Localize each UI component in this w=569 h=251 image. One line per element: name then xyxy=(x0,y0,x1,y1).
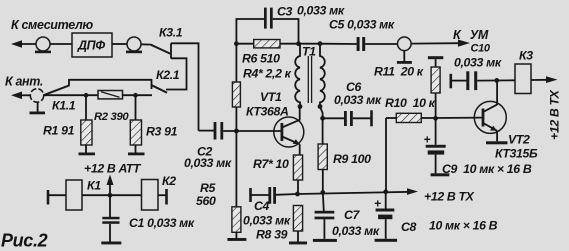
capacitor C2 xyxy=(214,122,224,140)
wire xyxy=(123,94,153,96)
svg-text:С3: С3 xyxy=(277,5,293,19)
node T1 pin1 xyxy=(296,41,301,46)
svg-text:К1: К1 xyxy=(87,179,101,193)
svg-text:С6: С6 xyxy=(346,80,362,94)
capacitor C5 xyxy=(320,37,397,51)
svg-text:С4: С4 xyxy=(254,199,270,213)
svg-text:0,033 мк: 0,033 мк xyxy=(184,156,232,170)
node R3 top xyxy=(133,93,138,98)
wire xyxy=(158,194,167,196)
relay coil K3 xyxy=(515,64,531,94)
arrow +12V ATT xyxy=(107,175,114,195)
wire T1 pin3 down xyxy=(320,107,323,119)
terminal right xyxy=(165,189,168,205)
svg-text:R7* 10: R7* 10 xyxy=(253,157,289,171)
svg-text:ДПФ: ДПФ xyxy=(77,39,105,53)
svg-text:560: 560 xyxy=(196,194,216,208)
wire switch K3.1 output xyxy=(171,43,199,130)
svg-text:0,033 мк: 0,033 мк xyxy=(454,55,502,69)
svg-text:С1 0,033 мк: С1 0,033 мк xyxy=(129,216,195,230)
svg-text:0,033 мк: 0,033 мк xyxy=(243,214,291,228)
svg-text:+: + xyxy=(374,197,381,211)
svg-text:R8 39: R8 39 xyxy=(256,228,288,242)
arrow +12V TX right xyxy=(531,76,558,83)
arrow to mixer xyxy=(11,40,37,48)
wire +12V TX rail xyxy=(298,188,419,195)
resistor R5 xyxy=(227,131,246,241)
svg-text:С10: С10 xyxy=(471,43,491,55)
wire to C2 xyxy=(199,130,215,132)
wire xyxy=(82,194,142,196)
node T1 pin4 top xyxy=(318,41,323,46)
capacitor C4 xyxy=(251,187,298,204)
arrow К УМ xyxy=(411,40,470,47)
svg-text:0,033 мк: 0,033 мк xyxy=(332,224,380,238)
svg-text:0,033 мк: 0,033 мк xyxy=(297,4,345,18)
svg-text:К3.1: К3.1 xyxy=(159,26,183,40)
svg-text:С9 10 мк × 16 В: С9 10 мк × 16 В xyxy=(442,162,532,176)
switch K1.1 xyxy=(44,85,70,95)
relay coil K2 xyxy=(142,180,159,211)
node C8 top xyxy=(383,189,388,194)
svg-text:КТ368А: КТ368А xyxy=(246,105,289,119)
svg-text:R5: R5 xyxy=(200,181,216,195)
svg-text:КТ315Б: КТ315Б xyxy=(495,147,538,161)
resistor R10 xyxy=(386,113,436,192)
node C1 top xyxy=(108,193,113,198)
svg-text:К ант.: К ант. xyxy=(5,75,43,89)
node VT1 base xyxy=(234,129,239,134)
connector XW1 xyxy=(35,37,51,53)
node R6 left xyxy=(234,41,239,46)
connector XW2 xyxy=(126,37,142,53)
svg-text:Т1: Т1 xyxy=(302,45,316,59)
capacitor C7 xyxy=(313,193,337,242)
svg-text:С8: С8 xyxy=(401,220,417,234)
svg-text:К УМ: К УМ xyxy=(453,28,489,42)
node VT2 base xyxy=(433,116,438,121)
node VT2 collector top xyxy=(494,78,499,83)
svg-text:+12 В ТХ: +12 В ТХ xyxy=(548,89,562,140)
resistor R7 xyxy=(293,155,302,194)
svg-text:R6 510: R6 510 xyxy=(242,52,280,66)
svg-text:С7: С7 xyxy=(344,208,361,222)
resistor R8 xyxy=(289,206,307,245)
svg-text:R3 91: R3 91 xyxy=(146,125,178,139)
node C6 R9 xyxy=(320,116,325,121)
wire attenuator line xyxy=(44,94,98,96)
connector XW4 xyxy=(397,37,412,64)
svg-text:К смесителю: К смесителю xyxy=(11,18,93,32)
resistor R9 xyxy=(318,118,327,192)
resistor R6 xyxy=(236,40,298,48)
wire K2.1 contact riser xyxy=(166,58,187,89)
node T1 pin2 xyxy=(298,104,303,109)
svg-text:+12 В АТТ: +12 В АТТ xyxy=(84,162,142,176)
wire xyxy=(112,43,128,45)
transistor VT2 xyxy=(474,80,507,144)
svg-text:С5 0,033 мк: С5 0,033 мк xyxy=(329,18,395,32)
svg-text:VT1: VT1 xyxy=(260,90,282,104)
svg-text:R9 100: R9 100 xyxy=(333,152,371,166)
svg-text:10 мк × 16 В: 10 мк × 16 В xyxy=(429,219,498,233)
wire bypass line xyxy=(69,80,152,86)
capacitor C1 xyxy=(101,195,121,244)
resistor R3 xyxy=(128,95,145,155)
svg-text:R2 390: R2 390 xyxy=(94,111,129,123)
switch K3.1 xyxy=(151,43,171,58)
switch K2.1 xyxy=(152,79,168,93)
svg-text:+: + xyxy=(424,133,431,147)
relay coil K1 xyxy=(66,180,82,210)
capacitor C8 xyxy=(374,192,397,242)
capacitor C9 xyxy=(424,118,450,176)
wire xyxy=(48,194,66,196)
svg-text:К1.1: К1.1 xyxy=(52,99,76,113)
node C4 R7 R8 xyxy=(295,192,300,197)
node R1 top xyxy=(84,93,89,98)
resistor R2 xyxy=(98,91,123,99)
node T1 pin3 xyxy=(318,104,323,109)
svg-text:К2: К2 xyxy=(162,174,176,188)
resistor R4 xyxy=(232,44,240,131)
arrow to antenna xyxy=(11,92,31,100)
capacitor C3 xyxy=(236,8,298,44)
svg-text:R1 91: R1 91 xyxy=(43,124,75,138)
wire xyxy=(141,43,152,45)
svg-text:+12 В ТХ: +12 В ТХ xyxy=(424,190,475,204)
capacitor C6 xyxy=(323,110,372,126)
resistor R1 xyxy=(79,95,96,155)
transistor VT1 xyxy=(274,107,304,156)
svg-text:К3: К3 xyxy=(519,49,533,63)
connector XW3 antenna xyxy=(30,89,46,115)
svg-text:К2.1: К2.1 xyxy=(156,68,180,82)
svg-text:R4* 2,2 к: R4* 2,2 к xyxy=(243,67,292,81)
svg-text:R10 10 к: R10 10 к xyxy=(385,96,436,110)
node R9 bottom xyxy=(320,190,325,195)
capacitor C10 xyxy=(451,71,515,90)
wire xyxy=(50,43,72,45)
filter ДПФ xyxy=(72,33,112,57)
resistor R11 xyxy=(428,56,443,118)
svg-text:VT2: VT2 xyxy=(508,133,530,147)
transformer T1 xyxy=(295,44,325,107)
svg-text:R11 20 к: R11 20 к xyxy=(374,65,424,79)
terminal left xyxy=(47,190,50,205)
svg-text:Рис.2: Рис.2 xyxy=(1,231,48,251)
wire base VT2 xyxy=(436,117,482,119)
svg-text:0,033 мк: 0,033 мк xyxy=(334,93,382,107)
wire C2 to VT1 base xyxy=(223,130,281,132)
